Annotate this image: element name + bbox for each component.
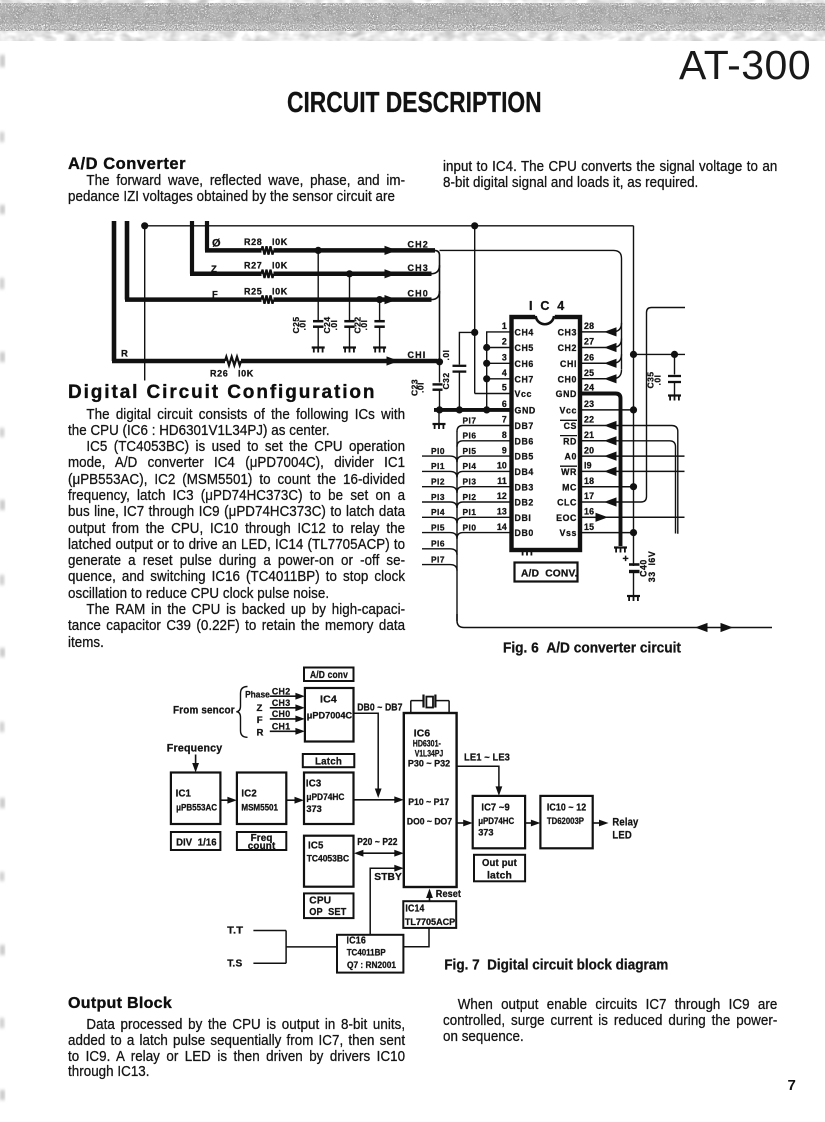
svg-text:μPD74HC: μPD74HC (306, 792, 344, 802)
svg-text:IC5: IC5 (308, 839, 324, 851)
svg-text:R25: R25 (244, 286, 262, 296)
svg-text:7: 7 (502, 415, 507, 425)
svg-text:PI0: PI0 (463, 522, 477, 532)
svg-text:21: 21 (584, 430, 594, 440)
svg-text:T.S: T.S (227, 957, 242, 969)
svg-text:9: 9 (502, 445, 507, 455)
svg-text:CLC: CLC (557, 498, 577, 508)
svg-text:CH0: CH0 (408, 289, 429, 299)
svg-text:13: 13 (497, 507, 507, 517)
svg-text:RD: RD (563, 436, 577, 446)
svg-text:IC1: IC1 (176, 788, 192, 800)
svg-text:PI5: PI5 (463, 446, 477, 456)
svg-text:A/D CONV.: A/D CONV. (521, 569, 578, 580)
svg-text:A0: A0 (565, 452, 577, 462)
svg-text:16: 16 (584, 507, 594, 517)
svg-text:PI4: PI4 (431, 507, 445, 517)
svg-text:EOC: EOC (556, 513, 577, 523)
svg-text:22: 22 (584, 415, 594, 425)
svg-text:C32: C32 (441, 372, 451, 389)
svg-text:20: 20 (584, 445, 594, 455)
svg-text:23: 23 (584, 399, 594, 409)
svg-text:STBY: STBY (374, 871, 402, 883)
svg-text:Reset: Reset (436, 888, 462, 900)
svg-text:Fig. 7 Digital circuit block: Fig. 7 Digital circuit block diagram (444, 957, 668, 973)
svg-text:GND: GND (515, 406, 536, 416)
svg-text:CH3: CH3 (558, 328, 577, 338)
svg-text:R: R (257, 727, 264, 738)
svg-text:TL7705ACP: TL7705ACP (405, 916, 455, 927)
svg-text:P30 ~ P32: P30 ~ P32 (408, 759, 450, 769)
svg-text:HD6301-: HD6301- (413, 739, 441, 749)
svg-text:27: 27 (584, 337, 594, 347)
svg-text:11: 11 (497, 476, 507, 486)
svg-text:3: 3 (502, 353, 507, 363)
svg-text:8: 8 (502, 430, 507, 440)
svg-text:I0K: I0K (272, 286, 288, 296)
svg-text:CH5: CH5 (515, 343, 534, 353)
svg-text:IC6: IC6 (414, 727, 431, 739)
svg-text:μPD74HC: μPD74HC (478, 816, 514, 826)
svg-text:IC7 ~9: IC7 ~9 (481, 802, 509, 814)
svg-text:CH6: CH6 (515, 359, 534, 369)
svg-text:R27: R27 (244, 261, 262, 271)
svg-text:33 I6V: 33 I6V (647, 551, 657, 582)
svg-text:GND: GND (556, 389, 577, 399)
svg-text:μPD7004C: μPD7004C (307, 710, 352, 721)
svg-text:PI1: PI1 (431, 461, 445, 471)
svg-text:P10 ~ P17: P10 ~ P17 (408, 797, 449, 808)
svg-text:+: + (623, 553, 630, 565)
svg-text:V1L34PJ: V1L34PJ (415, 749, 444, 759)
svg-text:DB2: DB2 (515, 498, 534, 508)
svg-text:CH0: CH0 (272, 709, 291, 720)
svg-text:Out put: Out put (482, 858, 517, 869)
svg-text:373: 373 (306, 804, 321, 814)
svg-text:F: F (257, 715, 263, 726)
svg-text:Z: Z (211, 264, 217, 275)
svg-text:LE1 ~ LE3: LE1 ~ LE3 (464, 752, 510, 764)
svg-text:.0I: .0I (359, 320, 369, 331)
svg-text:Ø: Ø (212, 237, 221, 249)
svg-text:PI1: PI1 (463, 507, 477, 517)
svg-text:CH2: CH2 (558, 343, 577, 353)
svg-text:PI0: PI0 (431, 446, 445, 456)
svg-text:F: F (212, 290, 218, 301)
svg-text:Z: Z (257, 703, 263, 714)
svg-text:PI5: PI5 (431, 522, 445, 532)
svg-text:CHI: CHI (560, 359, 577, 369)
svg-text:Fig. 6 A/D converter circuit: Fig. 6 A/D converter circuit (503, 641, 681, 657)
svg-text:14: 14 (497, 522, 507, 532)
svg-text:CH3: CH3 (408, 263, 429, 273)
svg-text:PI7: PI7 (431, 554, 445, 564)
svg-text:DB5: DB5 (515, 452, 534, 462)
svg-text:25: 25 (584, 368, 594, 378)
svg-text:17: 17 (584, 491, 594, 501)
svg-text:R: R (121, 348, 128, 359)
svg-text:Frequency: Frequency (167, 742, 223, 754)
svg-text:R28: R28 (244, 237, 262, 247)
svg-text:373: 373 (478, 827, 493, 837)
svg-text:PI3: PI3 (431, 492, 445, 502)
svg-text:1: 1 (502, 321, 507, 331)
svg-text:DB0: DB0 (515, 528, 534, 538)
svg-text:TD62003P: TD62003P (547, 816, 584, 826)
svg-text:.0I: .0I (653, 375, 663, 386)
svg-text:CS: CS (564, 421, 577, 431)
svg-text:CHI: CHI (408, 350, 427, 360)
svg-text:CH7: CH7 (515, 374, 534, 384)
svg-text:24: 24 (584, 383, 594, 393)
svg-text:IC4: IC4 (320, 694, 337, 706)
svg-text:WR: WR (561, 467, 577, 477)
svg-text:CPU: CPU (309, 894, 331, 906)
svg-text:10: 10 (497, 461, 507, 471)
svg-text:IC3: IC3 (306, 778, 322, 790)
svg-text:CH4: CH4 (515, 328, 534, 338)
svg-text:IC16: IC16 (347, 935, 367, 947)
svg-text:12: 12 (497, 491, 507, 501)
svg-text:CH2: CH2 (272, 686, 291, 697)
svg-text:Vss: Vss (560, 528, 577, 538)
svg-text:26: 26 (584, 353, 594, 363)
svg-text:DB0 ~ DB7: DB0 ~ DB7 (357, 701, 402, 713)
svg-text:.0I: .0I (298, 320, 308, 331)
svg-text:IC14: IC14 (405, 902, 424, 914)
svg-text:PI2: PI2 (431, 477, 445, 487)
svg-text:IC2: IC2 (241, 788, 257, 800)
svg-text:I0K: I0K (238, 368, 254, 378)
svg-text:TC4011BP: TC4011BP (347, 947, 386, 957)
svg-text:I0K: I0K (272, 261, 288, 271)
svg-text:DB6: DB6 (515, 436, 534, 446)
svg-text:CH1: CH1 (272, 722, 291, 733)
svg-text:MSM5501: MSM5501 (241, 802, 278, 812)
svg-text:PI3: PI3 (463, 477, 477, 487)
svg-text:CH3: CH3 (272, 698, 291, 709)
svg-text:.0I: .0I (416, 382, 426, 393)
svg-text:Vcc: Vcc (515, 389, 532, 399)
svg-text:18: 18 (584, 476, 594, 486)
svg-text:I0K: I0K (272, 237, 288, 247)
svg-text:μPB553AC: μPB553AC (176, 802, 217, 812)
svg-text:Relay: Relay (612, 816, 638, 828)
svg-text:2: 2 (502, 337, 507, 347)
svg-text:LED: LED (612, 829, 632, 841)
svg-text:.0I: .0I (441, 350, 451, 361)
svg-text:PI7: PI7 (463, 415, 477, 425)
svg-text:PI2: PI2 (463, 492, 477, 502)
svg-text:TC4053BC: TC4053BC (307, 853, 350, 863)
svg-text:Phase: Phase (245, 689, 270, 699)
svg-text:DBI: DBI (515, 513, 532, 523)
svg-text:P20 ~ P22: P20 ~ P22 (357, 836, 397, 848)
svg-text:6: 6 (502, 399, 507, 409)
svg-text:DO0 ~ DO7: DO0 ~ DO7 (407, 817, 452, 828)
svg-text:CH0: CH0 (558, 374, 577, 384)
svg-text:I C 4: I C 4 (529, 299, 566, 313)
svg-text:DIV 1/16: DIV 1/16 (176, 838, 217, 849)
svg-text:R26: R26 (210, 368, 228, 378)
svg-text:IC10 ~ 12: IC10 ~ 12 (547, 802, 586, 814)
svg-text:DB7: DB7 (515, 421, 534, 431)
svg-text:count: count (248, 841, 276, 852)
svg-text:PI4: PI4 (463, 461, 477, 471)
svg-text:From sencor: From sencor (173, 704, 235, 716)
svg-text:5: 5 (502, 383, 507, 393)
svg-text:Q7 : RN2001: Q7 : RN2001 (347, 960, 396, 970)
svg-text:MC: MC (562, 482, 577, 492)
svg-text:PI6: PI6 (431, 539, 445, 549)
svg-text:latch: latch (487, 870, 512, 881)
svg-text:DB4: DB4 (515, 467, 534, 477)
svg-text:A/D conv: A/D conv (310, 669, 348, 681)
svg-text:28: 28 (584, 321, 594, 331)
svg-text:DB3: DB3 (515, 482, 534, 492)
svg-text:I9: I9 (584, 461, 592, 471)
svg-text:15: 15 (584, 522, 594, 532)
svg-text:PI6: PI6 (463, 431, 477, 441)
svg-text:CH2: CH2 (408, 239, 429, 249)
svg-text:T.T: T.T (227, 925, 244, 937)
svg-text:OP SET: OP SET (309, 906, 346, 918)
svg-text:4: 4 (502, 368, 507, 378)
svg-text:.0I: .0I (329, 320, 339, 331)
svg-text:Latch: Latch (315, 756, 342, 768)
svg-text:Vcc: Vcc (560, 406, 577, 416)
